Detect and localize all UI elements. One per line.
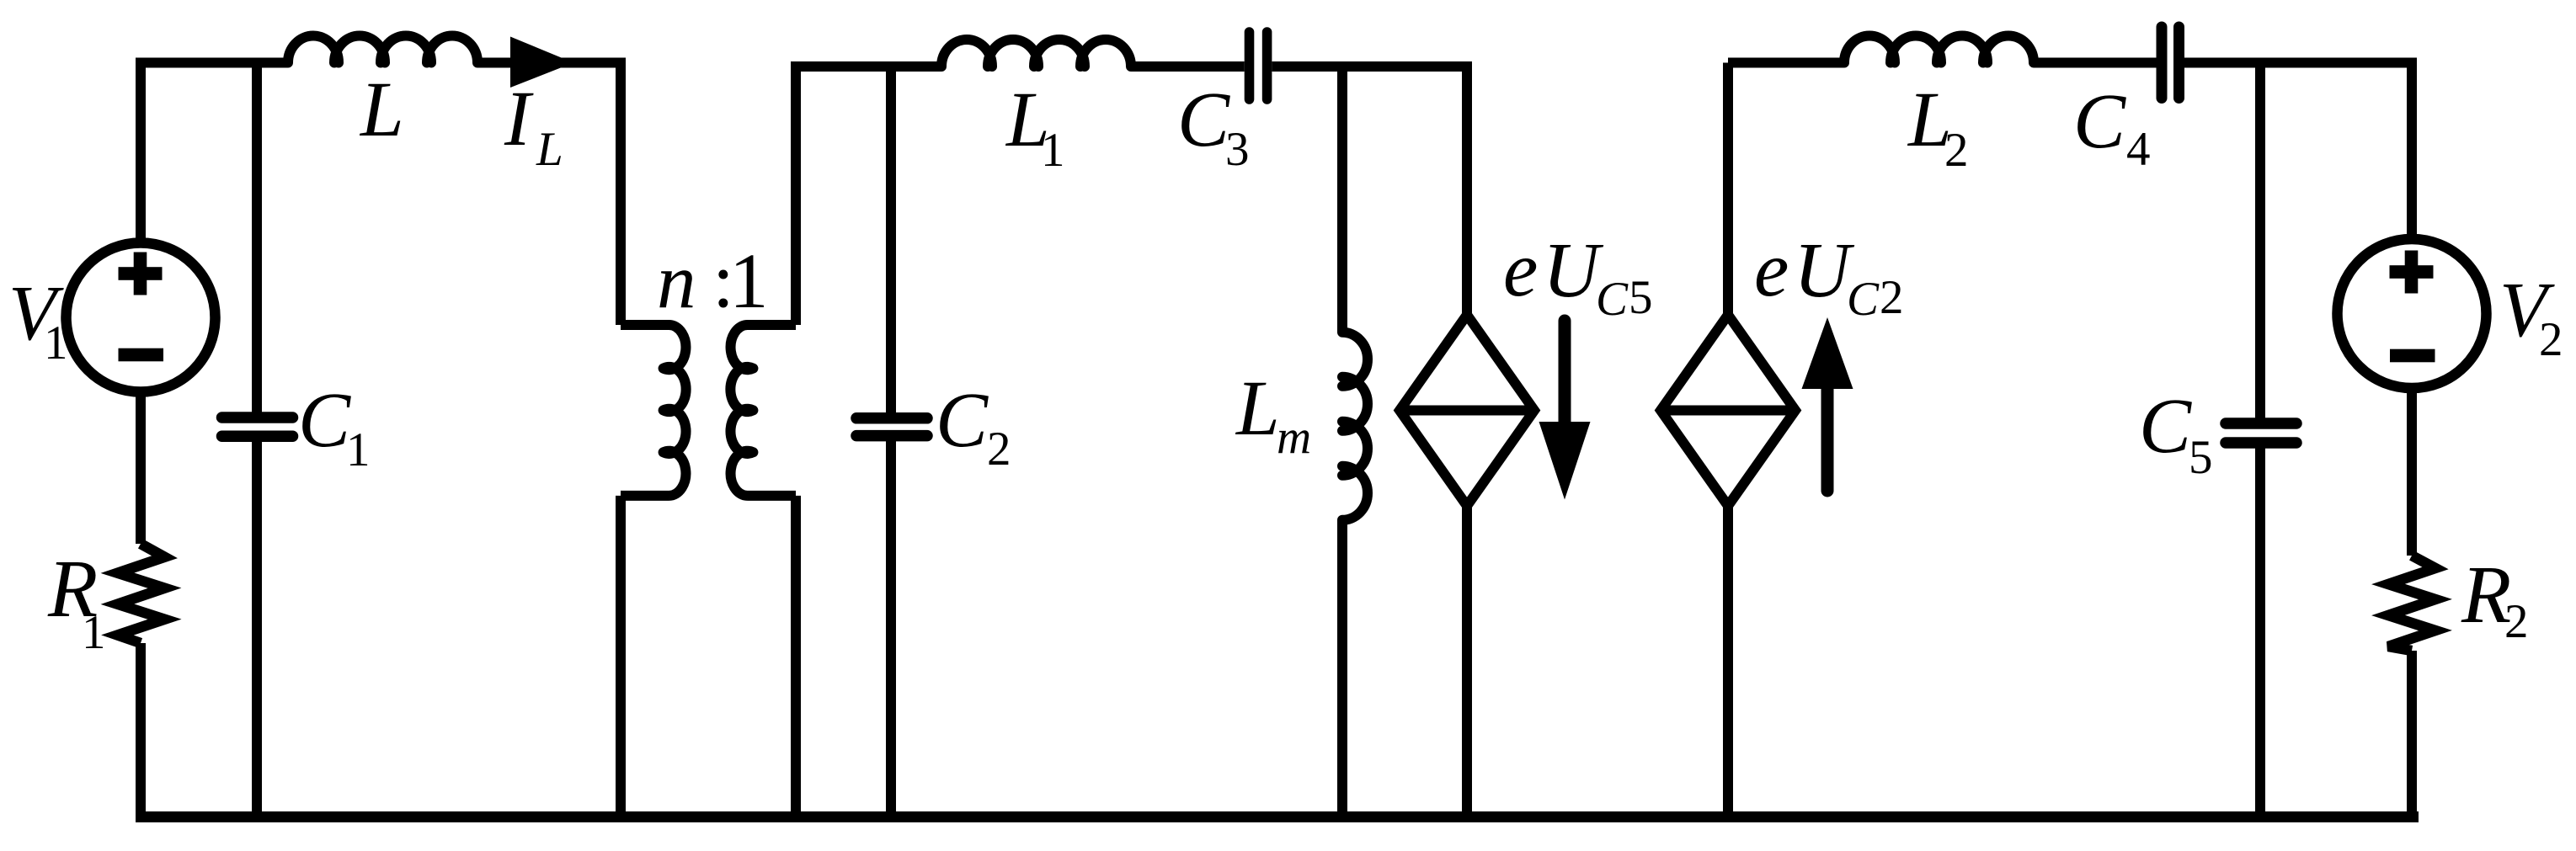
- current arrow I_L head: [510, 37, 573, 88]
- inductor L: [288, 36, 477, 63]
- voltage source V2 circle: [2338, 239, 2487, 388]
- wire transformer secondary risers: [796, 66, 941, 817]
- label I_L: [504, 76, 563, 176]
- svg-text:C: C: [298, 377, 351, 464]
- label C3: [1177, 77, 1250, 176]
- label Lm: [1235, 365, 1311, 464]
- svg-text:n: n: [657, 238, 696, 325]
- controlled source eU_C2 diamond: [1661, 315, 1795, 506]
- svg-text:1: 1: [1041, 124, 1065, 177]
- inductor L2: [1844, 36, 2034, 63]
- svg-text:C: C: [2139, 383, 2192, 470]
- svg-text:I: I: [504, 76, 534, 162]
- svg-text:C: C: [936, 377, 989, 464]
- label C5: [2139, 383, 2213, 484]
- label L1: [1005, 77, 1065, 177]
- label V1: [8, 270, 68, 370]
- inductor Lm: [1342, 332, 1368, 520]
- label L2: [1907, 77, 1969, 177]
- V1 minus sign: [119, 348, 164, 362]
- arrow for eU_C5 (down): [1539, 321, 1591, 500]
- svg-text:C: C: [1847, 273, 1880, 326]
- wire C5 branch: [2255, 63, 2265, 817]
- label C1: [298, 377, 371, 476]
- wire C2 branch: [886, 66, 896, 817]
- svg-text:3: 3: [1225, 123, 1250, 176]
- svg-text:C: C: [2073, 78, 2126, 165]
- svg-text:2: 2: [2539, 313, 2563, 366]
- svg-text:4: 4: [2126, 123, 2151, 176]
- svg-text:m: m: [1277, 411, 1311, 464]
- svg-text:1: 1: [346, 423, 371, 476]
- svg-text:e: e: [1754, 226, 1789, 313]
- svg-text:C: C: [1177, 77, 1230, 163]
- label n:1: [657, 237, 769, 325]
- inductor L1: [941, 40, 1131, 66]
- capacitor C3 plates: [1250, 32, 1267, 99]
- capacitor C2 plates: [856, 418, 927, 436]
- wire eU_C5 source branch bottom: [1462, 506, 1472, 817]
- label R2: [2461, 550, 2529, 648]
- svg-text:e: e: [1503, 226, 1538, 313]
- svg-text:1: 1: [82, 606, 106, 659]
- wire top-left rail: [141, 63, 621, 326]
- controlled source eU_C5 diamond: [1400, 315, 1534, 506]
- svg-text:2: 2: [1880, 271, 1904, 324]
- label L: [359, 66, 404, 153]
- capacitor C1 plates: [222, 418, 293, 436]
- svg-text:L: L: [536, 123, 563, 176]
- wire V2-R2 branch: [2407, 389, 2417, 817]
- svg-text:5: 5: [1629, 271, 1653, 324]
- voltage source V1 circle: [67, 243, 216, 392]
- svg-text:1: 1: [729, 238, 769, 325]
- label C4: [2073, 78, 2151, 176]
- svg-text:1: 1: [44, 316, 68, 370]
- wire top-middle rail: [1131, 66, 1467, 315]
- svg-text:L: L: [359, 66, 404, 153]
- V2 minus sign: [2390, 349, 2435, 363]
- label R1: [47, 544, 106, 659]
- resistor R1: [118, 544, 165, 643]
- svg-text:L: L: [1235, 365, 1280, 452]
- wire top-right rail: [2034, 63, 2412, 237]
- label V2: [2499, 267, 2563, 366]
- label eU_C2: [1754, 226, 1904, 326]
- svg-text:5: 5: [2189, 431, 2213, 484]
- wire Lm branch: [1337, 66, 1347, 817]
- transformer T1 primary winding: [621, 325, 686, 496]
- svg-text:2: 2: [2504, 595, 2529, 648]
- transformer T1 secondary winding: [730, 325, 796, 496]
- wire C1 branch: [252, 63, 262, 817]
- wire eU_C2 source branch: [1728, 63, 1844, 817]
- capacitor C4 plates: [2162, 27, 2179, 98]
- resistor R2: [2388, 556, 2435, 651]
- V1 plus sign: [119, 253, 163, 295]
- wire transformer primary riser bottom: [616, 496, 626, 817]
- label eU_C5: [1503, 226, 1653, 326]
- arrow for eU_C2 (up): [1802, 317, 1853, 491]
- svg-text:C: C: [1596, 273, 1629, 326]
- svg-text:2: 2: [1944, 124, 1969, 177]
- V2 plus sign: [2390, 251, 2434, 294]
- wire bottom rail: [136, 811, 2419, 822]
- capacitor C5 plates: [2226, 423, 2296, 443]
- svg-text:2: 2: [987, 423, 1011, 476]
- label C2: [936, 377, 1011, 476]
- wire V1-R1 branch: [136, 392, 146, 817]
